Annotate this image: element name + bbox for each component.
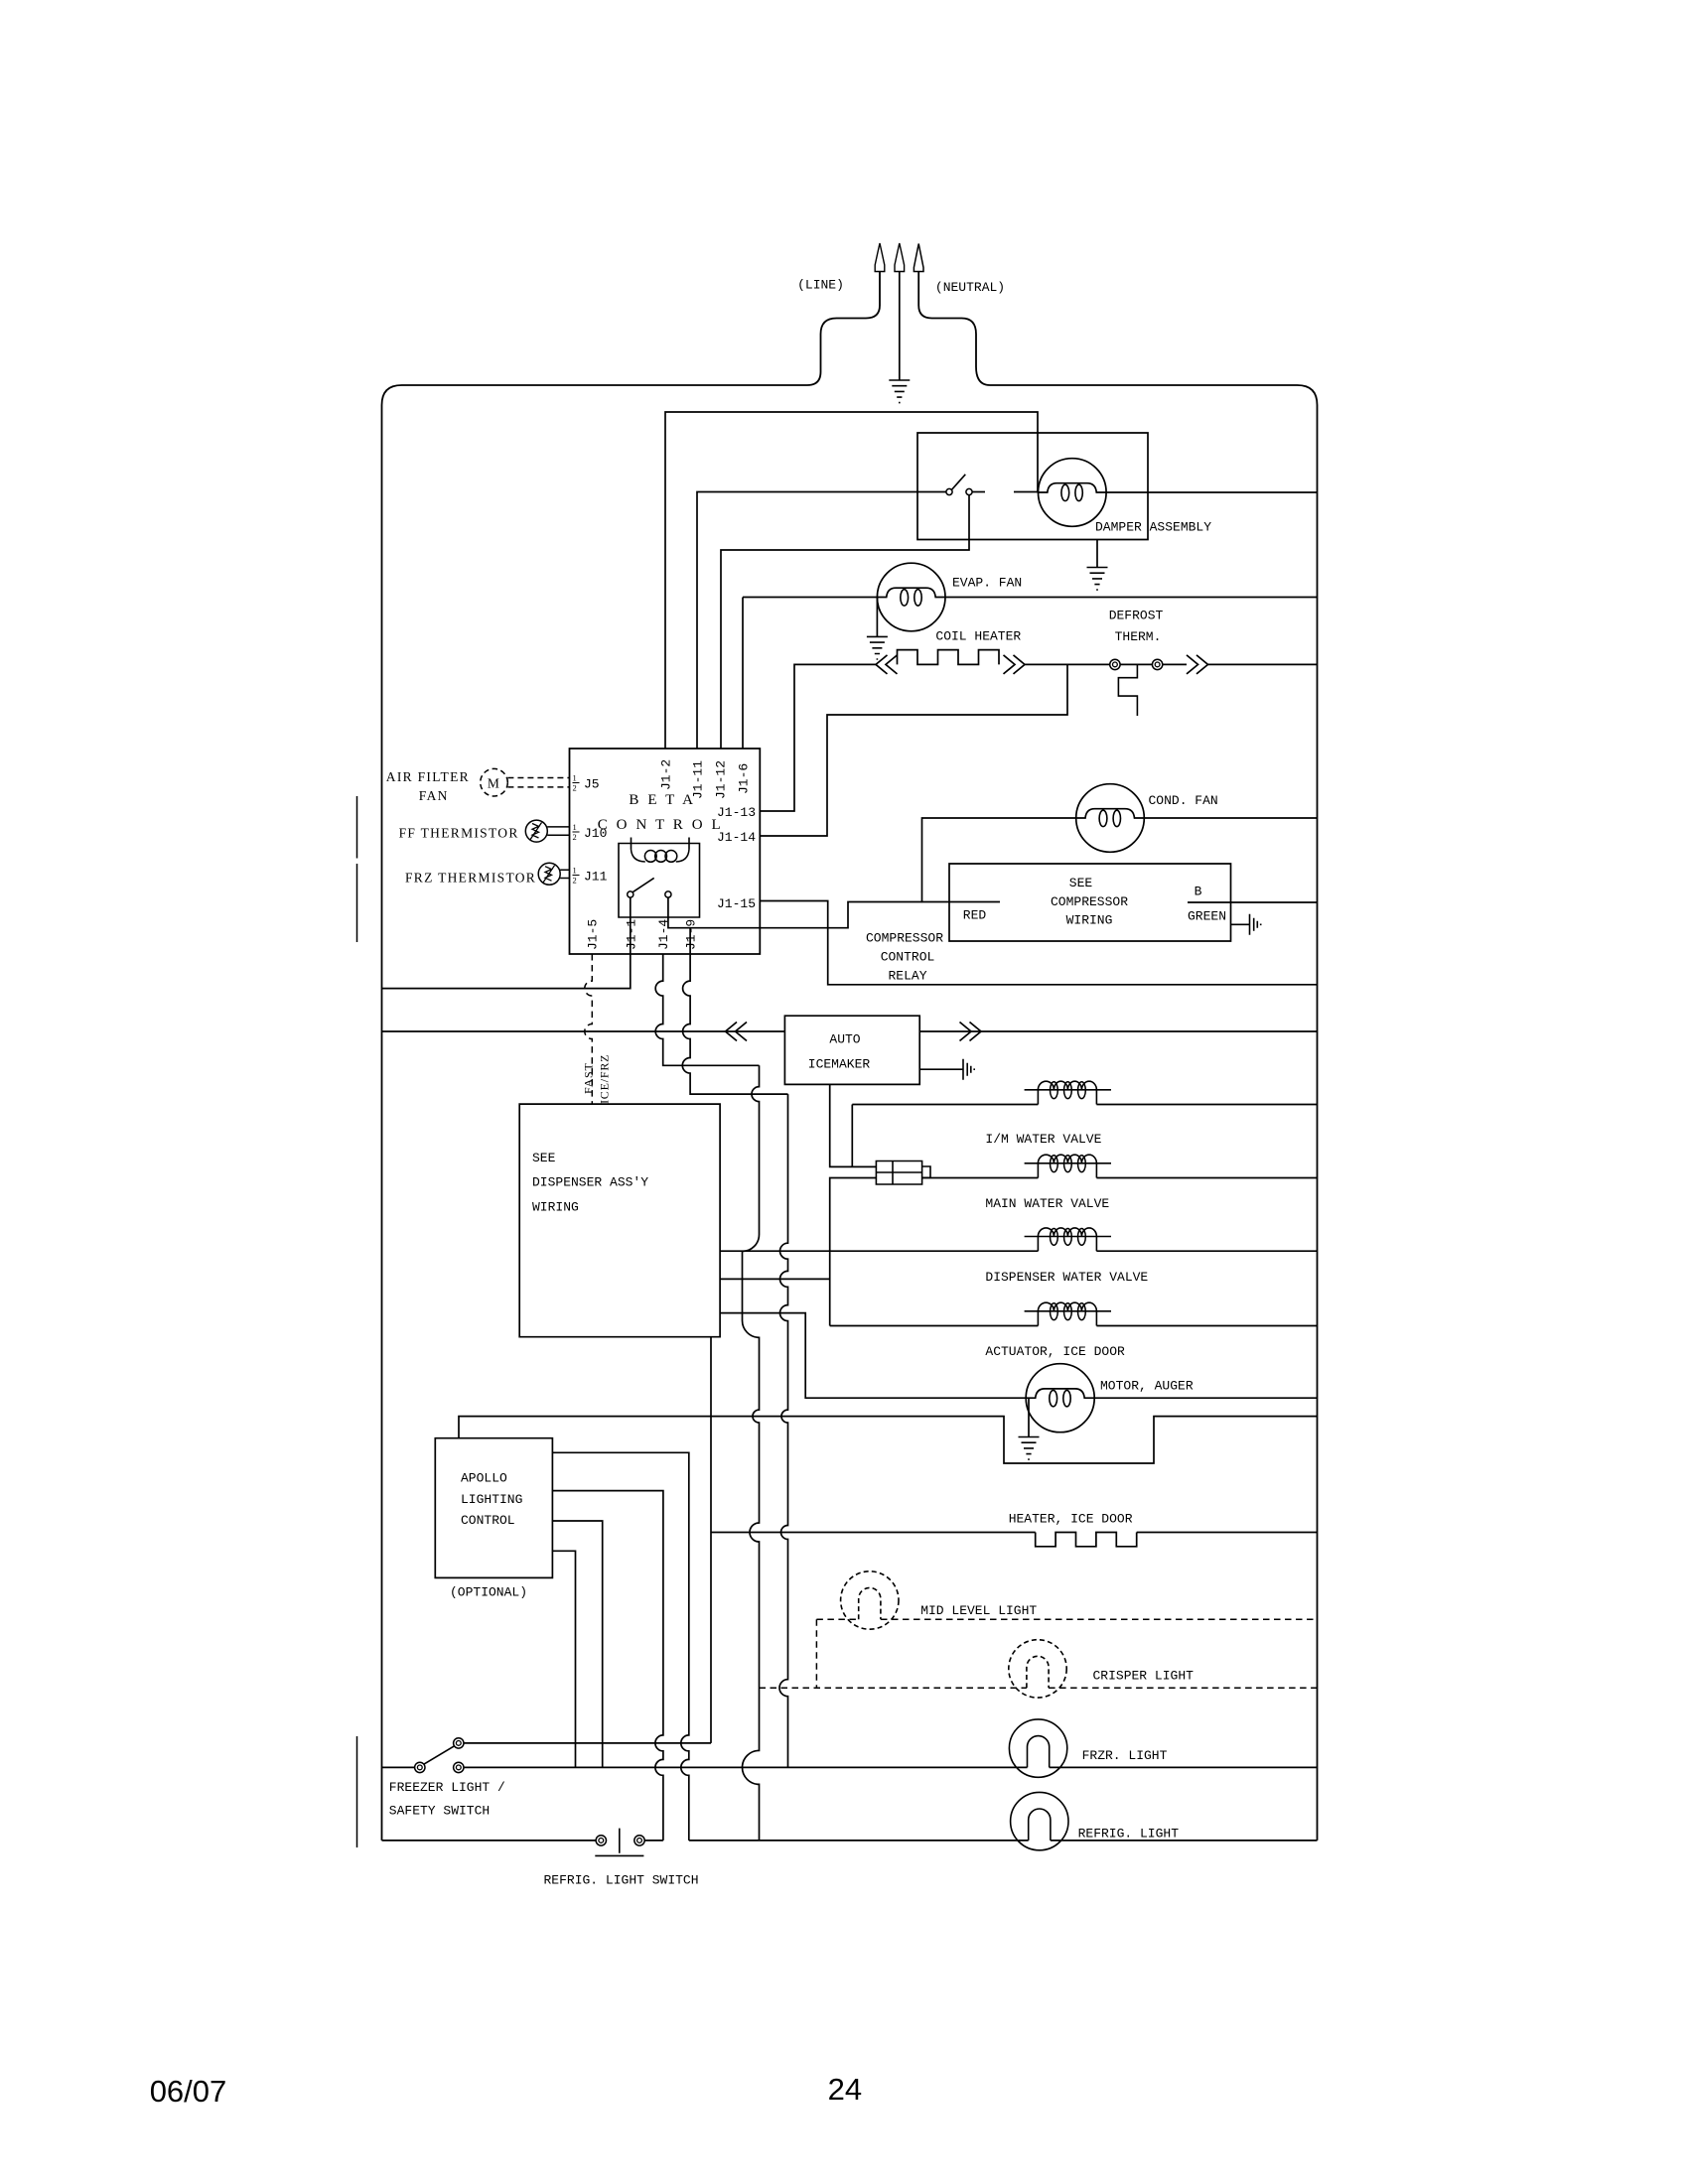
wire - evap fan row to right border: [945, 597, 1318, 599]
wire - main valve row: [922, 1177, 1318, 1179]
svg-text:C O N T R O L: C O N T R O L: [598, 817, 724, 833]
control module APOLLO LIGHTING CONTROL box: [435, 1438, 552, 1578]
svg-text:J11: J11: [584, 870, 608, 885]
motor - cond fan: [1076, 784, 1145, 853]
svg-text:J1-1: J1-1: [625, 919, 639, 950]
svg-text:24: 24: [828, 2072, 862, 2107]
wire - J1-4 long vertical with hops and detour: [743, 1065, 760, 1841]
svg-text:2: 2: [573, 876, 577, 886]
svg-text:ACTUATOR, ICE DOOR: ACTUATOR, ICE DOOR: [985, 1344, 1125, 1359]
wire - J1-9 long vertical with hops: [779, 1094, 788, 1767]
contact - freezer switch common: [415, 1762, 425, 1772]
ground - auger motor ground: [1019, 1437, 1040, 1460]
svg-text:AUTO: AUTO: [829, 1032, 860, 1047]
wire - dispenser box row B: [720, 1278, 830, 1280]
wire - evap fan ground stem: [876, 598, 878, 637]
coil - main water valve: [1025, 1155, 1111, 1177]
defrost thermostat bimetal step: [1118, 664, 1137, 716]
svg-text:REFRIG. LIGHT SWITCH: REFRIG. LIGHT SWITCH: [544, 1873, 699, 1888]
wire - dispenser valve row: [720, 1250, 1317, 1252]
svg-text:J1-11: J1-11: [691, 760, 706, 799]
wire - FF thermistor pair to J10: [547, 827, 569, 835]
wire - damper motor to right border: [1106, 491, 1317, 493]
wire - dashed link mid to crisper row: [815, 1619, 817, 1688]
svg-text:LIGHTING: LIGHTING: [461, 1492, 522, 1507]
connector chevrons coil heater left: [876, 655, 898, 674]
svg-text:B E T A: B E T A: [629, 792, 695, 808]
compressor wiring box: [949, 864, 1231, 941]
wire - damper switch to motor: [1014, 491, 1039, 493]
refrig light switch plunger: [595, 1829, 643, 1856]
relay K1 box: [619, 844, 700, 918]
svg-text:FREEZER LIGHT /: FREEZER LIGHT /: [389, 1780, 505, 1795]
plug prong (NEUTRAL): [914, 244, 923, 272]
thermistor FF: [525, 820, 547, 842]
wire - J1-15 to compressor relay row and right border: [760, 901, 1317, 985]
motor M - air filter fan: [481, 768, 508, 796]
dispenser assembly box: [519, 1104, 720, 1337]
svg-text:SAFETY SWITCH: SAFETY SWITCH: [389, 1803, 490, 1818]
svg-text:J1-12: J1-12: [714, 760, 729, 799]
wire - frzr light row: [464, 1766, 1318, 1768]
svg-text:2: 2: [573, 832, 577, 842]
lamp - crisper light: [1009, 1640, 1066, 1698]
wire - freezer switch upper row: [464, 1742, 711, 1744]
ground - plug earth ground: [889, 380, 910, 403]
auto icemaker box: [784, 1016, 919, 1084]
wire - motor row to right border: [1094, 1397, 1317, 1399]
svg-text:DISPENSER WATER VALVE: DISPENSER WATER VALVE: [985, 1270, 1148, 1285]
svg-text:MOTOR, AUGER: MOTOR, AUGER: [1100, 1379, 1194, 1394]
lamp - mid level light: [841, 1571, 899, 1629]
coil - I/M water valve: [1025, 1081, 1111, 1104]
svg-text:B: B: [1195, 885, 1202, 899]
control module BETA CONTROL box: [570, 749, 761, 954]
wire - J1-11 to damper switch: [697, 492, 946, 749]
wire - J1-14 branch under heater: [760, 664, 1067, 836]
ground - compressor green ground: [1250, 914, 1261, 935]
wire - damper switch terminal to J1-12: [721, 495, 969, 749]
svg-text:AIR FILTER: AIR FILTER: [386, 769, 470, 784]
svg-text:WIRING: WIRING: [1066, 913, 1113, 928]
svg-text:(OPTIONAL): (OPTIONAL): [450, 1585, 527, 1600]
svg-text:COMPRESSOR: COMPRESSOR: [866, 931, 943, 946]
wire - J1-9 branch inside beta: [689, 928, 691, 954]
svg-text:J1-13: J1-13: [717, 805, 756, 820]
damper assembly box: [917, 433, 1148, 540]
wire - apollo output 3: [552, 1521, 602, 1767]
svg-text:J10: J10: [584, 826, 607, 841]
ground - damper assembly ground: [1087, 568, 1108, 591]
svg-text:1: 1: [573, 866, 577, 876]
wire - air filter fan dashed pair to J5: [507, 778, 569, 787]
wire - J1-4 upper with hops: [655, 954, 759, 1065]
svg-text:RED: RED: [963, 908, 987, 923]
svg-text:J1-9: J1-9: [684, 919, 699, 950]
svg-text:J1-5: J1-5: [586, 919, 601, 950]
thermistor FRZ: [538, 863, 560, 885]
contact - defrost thermostat left: [1110, 659, 1120, 669]
lamp - frzr light: [1009, 1719, 1066, 1777]
svg-text:(NEUTRAL): (NEUTRAL): [935, 280, 1005, 295]
wire - I/M valve row corner to connector: [851, 1105, 853, 1167]
wire - J1-6 riser: [742, 598, 744, 749]
ground - icemaker ground: [963, 1059, 974, 1080]
svg-text:HEATER, ICE DOOR: HEATER, ICE DOOR: [1009, 1512, 1133, 1527]
svg-text:FRZR. LIGHT: FRZR. LIGHT: [1082, 1748, 1168, 1763]
contact - refrig switch right: [634, 1836, 644, 1845]
connector block water valve: [876, 1161, 930, 1185]
relay coil leads: [632, 838, 690, 850]
switch lever - freezer safety switch: [424, 1746, 455, 1764]
svg-text:ICE/FRZ: ICE/FRZ: [598, 1054, 612, 1104]
svg-text:MID LEVEL LIGHT: MID LEVEL LIGHT: [920, 1603, 1037, 1618]
wire - auger ground stem: [1028, 1398, 1030, 1436]
svg-text:DISPENSER ASS'Y: DISPENSER ASS'Y: [532, 1175, 648, 1190]
svg-text:J1-14: J1-14: [717, 830, 756, 845]
svg-text:REFRIG. LIGHT: REFRIG. LIGHT: [1078, 1827, 1180, 1842]
connector chevrons defrost right: [1187, 655, 1208, 674]
svg-text:RELAY: RELAY: [888, 969, 926, 984]
wire - icemaker row to right border: [919, 1030, 1317, 1032]
switch - damper switch: [946, 488, 952, 494]
svg-text:J1-15: J1-15: [717, 896, 756, 911]
relay coil loops: [632, 850, 690, 862]
wire - relay contact J1-4 to compressor RED: [668, 897, 949, 928]
contact - freezer switch upper: [454, 1738, 464, 1748]
heater - defrost coil heater element: [898, 650, 1000, 665]
svg-text:1: 1: [573, 822, 577, 832]
svg-text:FAN: FAN: [419, 788, 449, 803]
wire - heater ice door row: [711, 1532, 1036, 1534]
svg-text:SEE: SEE: [1069, 876, 1093, 890]
svg-text:WIRING: WIRING: [532, 1199, 579, 1214]
wire - damper switch stub: [972, 491, 985, 493]
wire - defrost row to right border: [1208, 663, 1318, 665]
wire - crisper light dashed row: [760, 1687, 1318, 1689]
svg-text:APOLLO: APOLLO: [461, 1471, 507, 1486]
svg-text:FRZ THERMISTOR: FRZ THERMISTOR: [405, 871, 536, 886]
svg-text:J1-6: J1-6: [737, 763, 752, 794]
coil - dispenser water valve: [1025, 1228, 1111, 1251]
svg-text:I/M WATER VALVE: I/M WATER VALVE: [985, 1132, 1101, 1147]
svg-text:CONTROL: CONTROL: [881, 950, 935, 965]
wire - evap fan row left: [743, 597, 877, 599]
svg-text:M: M: [488, 775, 500, 790]
svg-text:DEFROST: DEFROST: [1109, 609, 1164, 623]
heater - ice door heater element: [1036, 1533, 1137, 1547]
wire - cond fan row to right border: [1144, 817, 1317, 819]
wire - defrost to chevron: [1163, 663, 1188, 665]
wire - apollo output 2: [552, 1491, 663, 1841]
svg-text:DAMPER ASSEMBLY: DAMPER ASSEMBLY: [1095, 520, 1211, 535]
wire - J1-9 with hops to crossover: [682, 954, 787, 1094]
wire - mid level light dashed row: [816, 1618, 1317, 1620]
wire bundle tick upper: [356, 796, 358, 942]
svg-text:THERM.: THERM.: [1115, 629, 1162, 644]
lamp - refrig light: [1011, 1792, 1068, 1849]
wire - RED terminal: [949, 901, 1000, 903]
wire - refrig row to right border: [1051, 1840, 1318, 1842]
svg-text:2: 2: [573, 783, 577, 793]
wire - I/M valve row: [852, 1104, 1317, 1106]
wire - icemaker ground stub: [919, 1068, 963, 1070]
wire - bottom border refrig row left: [382, 1840, 597, 1842]
wire - damper ground stem: [1096, 540, 1098, 568]
wire - GREEN terminal to right border: [1188, 901, 1318, 903]
wire - heater to defrost thermostat: [1025, 663, 1110, 665]
wire - refrig row to apollo 2: [644, 1840, 663, 1842]
wire - refrig row center to bulb: [689, 1840, 1029, 1842]
contact - refrig switch left: [596, 1836, 606, 1845]
svg-text:(LINE): (LINE): [797, 278, 844, 293]
plug prong (ground): [895, 243, 905, 272]
svg-text:J5: J5: [584, 777, 600, 792]
svg-text:COMPRESSOR: COMPRESSOR: [1051, 894, 1128, 909]
wire - dispenser box bottom pin long vertical: [710, 1337, 712, 1743]
wire - cond fan tap junction: [921, 901, 924, 903]
wire - icemaker row from left border: [382, 1030, 785, 1032]
svg-text:1: 1: [573, 773, 577, 783]
plug prong (LINE): [875, 243, 885, 272]
wire - J1-13 from beta control: [760, 664, 876, 811]
wire - J1-1 to left border: [382, 897, 631, 989]
connector chevrons icemaker left: [726, 1023, 748, 1041]
connector chevrons icemaker right: [960, 1023, 982, 1041]
svg-text:GREEN: GREEN: [1188, 909, 1226, 924]
wire - apollo output 4: [552, 1551, 575, 1767]
svg-text:EVAP. FAN: EVAP. FAN: [952, 576, 1022, 591]
motor - auger motor: [1026, 1364, 1094, 1433]
wire - icemaker bottom pin to connector: [830, 1084, 877, 1166]
relay switch lever: [633, 878, 653, 891]
wire - inner box top edge J1-2 feed: [665, 412, 1038, 749]
wire - cond fan row left riser: [922, 818, 1076, 902]
wire - J1-5 dashed to dispenser box: [585, 954, 593, 1104]
motor - evap fan: [877, 563, 945, 631]
contact - freezer switch lower: [454, 1762, 464, 1772]
wire - actuator row: [830, 1325, 1318, 1327]
wire bundle tick lower: [356, 1736, 358, 1847]
wire - freezer switch feed from left border: [382, 1766, 416, 1768]
wire - green ground stub: [1231, 923, 1250, 925]
relay switch contacts: [628, 891, 633, 897]
svg-text:CRISPER LIGHT: CRISPER LIGHT: [1093, 1669, 1195, 1684]
ground - evap fan ground: [867, 636, 888, 659]
motor - damper motor coil: [1039, 459, 1107, 527]
wire - heater row to right border: [1137, 1532, 1318, 1534]
svg-text:FF THERMISTOR: FF THERMISTOR: [399, 826, 519, 841]
svg-text:SEE: SEE: [532, 1151, 556, 1165]
wire - apollo feed row with dip: [459, 1417, 1318, 1463]
svg-text:ICEMAKER: ICEMAKER: [808, 1056, 871, 1071]
svg-text:06/07: 06/07: [150, 2074, 227, 2109]
wire - NEUTRAL prong to top edge and outer border right side: [918, 272, 1317, 1841]
wire - between defrost contacts: [1120, 663, 1153, 665]
connector chevrons coil heater right: [1004, 655, 1026, 674]
wire - dispenser box row C to motor row: [720, 1313, 1026, 1399]
svg-text:FAST: FAST: [582, 1062, 596, 1094]
svg-text:MAIN WATER VALVE: MAIN WATER VALVE: [985, 1196, 1109, 1211]
wire - ground prong stem: [899, 272, 901, 381]
contact - defrost thermostat right: [1152, 659, 1162, 669]
svg-text:J1-2: J1-2: [659, 759, 674, 790]
svg-text:COIL HEATER: COIL HEATER: [935, 629, 1021, 644]
coil - actuator ice door: [1025, 1302, 1111, 1325]
wire - apollo output 1: [552, 1452, 688, 1841]
svg-text:CONTROL: CONTROL: [461, 1513, 515, 1528]
wire - connector lower left leg: [830, 1178, 877, 1326]
svg-text:COND. FAN: COND. FAN: [1149, 793, 1218, 808]
wire - FRZ thermistor pair to J11: [560, 870, 569, 878]
wire - outer border left side and top edge to LINE prong: [382, 272, 881, 1841]
